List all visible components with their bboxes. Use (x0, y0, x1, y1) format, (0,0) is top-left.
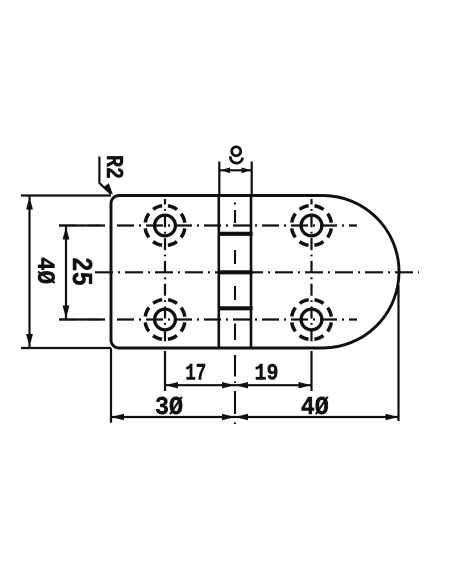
bottom left extension line (110, 348, 112, 423)
radius leader line (99, 157, 111, 195)
dimension 25 left extension line bottom (59, 318, 100, 320)
dimension a extension line right (251, 162, 253, 196)
knuckle divider 3 (218, 306, 253, 310)
radius leader arrow (104, 183, 113, 195)
dimension a label (230, 147, 242, 163)
bottom hole row center line (59, 318, 357, 320)
main horizontal center line (95, 271, 419, 273)
dimension a dimension line (219, 169, 251, 171)
dimension 40 bottom left arrow (235, 414, 248, 420)
right hole column center line (310, 199, 312, 391)
dimension 19 right arrow (299, 382, 312, 388)
svg-text:4Ø: 4Ø (301, 392, 329, 422)
dimension 40 left dimension line (28, 196, 30, 349)
dimension 30 left arrow (111, 414, 124, 420)
hole bottom-left (145, 300, 185, 340)
dimension 25 left extension line top (59, 224, 100, 226)
svg-text:R2: R2 (99, 155, 126, 179)
hole top-right (292, 206, 332, 246)
dimension 40 left arrow up (26, 197, 33, 210)
dimension 25 left dimension line (65, 226, 67, 320)
svg-text:25: 25 (64, 257, 97, 286)
dimension 25 arrow up (63, 227, 70, 240)
bottom right extension line (397, 285, 399, 421)
hinge pin band right line (250, 196, 253, 349)
svg-text:17: 17 (185, 361, 206, 387)
hinge body outline (111, 196, 399, 349)
hole bottom-right (292, 300, 332, 340)
knuckle divider 2 (218, 270, 253, 274)
dimension 25 arrow down (63, 306, 70, 319)
dimension a arrow right (242, 168, 252, 174)
dimension 40 left arrow down (26, 334, 33, 347)
left hole column center line (164, 199, 166, 391)
svg-text:3Ø: 3Ø (155, 392, 183, 422)
top hole row center line (59, 224, 357, 226)
svg-text:4Ø: 4Ø (30, 257, 59, 284)
dimension a extension line left (218, 162, 220, 196)
svg-text:19: 19 (255, 361, 279, 387)
knuckle divider 1 (218, 232, 253, 236)
dimension 40 bottom right arrow (386, 414, 399, 420)
hinge pin center line (234, 203, 236, 425)
dimension a arrow left (220, 168, 230, 174)
dimension 17 left arrow (165, 382, 178, 388)
hinge pin band left line (218, 196, 221, 349)
dimension 30 40 dimension line (111, 416, 399, 418)
dimension 40 left extension line top (21, 194, 111, 196)
dimension 30 right arrow (222, 414, 235, 420)
dimension 19 left arrow (235, 382, 248, 388)
dimension 17 right arrow (222, 382, 235, 388)
dimension 17 19 dimension line (165, 384, 312, 386)
hole top-left (145, 206, 185, 246)
dimension 40 left extension line bottom (21, 347, 111, 349)
